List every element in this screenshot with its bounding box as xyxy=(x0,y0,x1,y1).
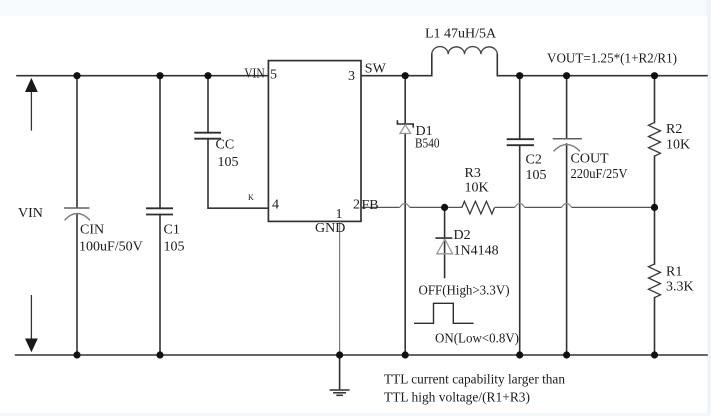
svg-text:3.3K: 3.3K xyxy=(666,280,694,295)
svg-text:VOUT=1.25*(1+R2/R1): VOUT=1.25*(1+R2/R1) xyxy=(547,52,677,67)
svg-text:VIN: VIN xyxy=(244,67,265,82)
svg-text:TTL high voltage/(R1+R3): TTL high voltage/(R1+R3) xyxy=(384,391,530,406)
svg-text:3: 3 xyxy=(348,69,355,84)
svg-text:GND: GND xyxy=(315,221,345,236)
svg-text:105: 105 xyxy=(218,155,239,170)
svg-text:SW: SW xyxy=(365,62,387,77)
svg-text:K: K xyxy=(248,193,254,202)
svg-text:CIN: CIN xyxy=(80,223,104,238)
svg-text:ON(Low<0.8V): ON(Low<0.8V) xyxy=(435,332,519,347)
svg-text:C2: C2 xyxy=(526,153,542,168)
svg-text:L1 47uH/5A: L1 47uH/5A xyxy=(425,27,497,42)
svg-text:CC: CC xyxy=(216,138,235,153)
svg-text:B540: B540 xyxy=(415,137,440,152)
svg-text:COUT: COUT xyxy=(571,152,610,167)
svg-text:VIN: VIN xyxy=(18,206,43,221)
svg-text:10K: 10K xyxy=(465,181,489,196)
svg-text:FB: FB xyxy=(362,198,379,213)
svg-text:C1: C1 xyxy=(164,223,180,238)
svg-text:R1: R1 xyxy=(666,265,682,280)
svg-text:4: 4 xyxy=(272,197,279,212)
svg-text:5: 5 xyxy=(270,67,277,82)
svg-text:TTL current capability larger: TTL current capability larger than xyxy=(384,373,565,388)
svg-text:2: 2 xyxy=(353,198,360,213)
svg-text:D2: D2 xyxy=(454,228,471,243)
svg-text:100uF/50V: 100uF/50V xyxy=(79,240,143,255)
svg-text:220uF/25V: 220uF/25V xyxy=(571,167,628,182)
svg-text:R3: R3 xyxy=(465,166,481,181)
svg-text:R2: R2 xyxy=(666,122,682,137)
svg-text:1: 1 xyxy=(336,207,343,222)
svg-text:105: 105 xyxy=(526,168,547,183)
svg-text:105: 105 xyxy=(164,240,185,255)
svg-text:OFF(High>3.3V): OFF(High>3.3V) xyxy=(419,284,510,299)
svg-text:10K: 10K xyxy=(666,138,690,153)
svg-text:1N4148: 1N4148 xyxy=(454,243,499,258)
